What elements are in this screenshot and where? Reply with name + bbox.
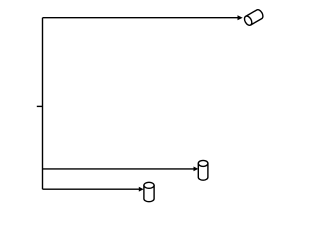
arrowhead bottom — [139, 187, 144, 192]
source stub tick — [37, 105, 43, 107]
wire to bottom cylinder — [43, 188, 140, 190]
cylinder middle — [198, 160, 208, 180]
wire to middle cylinder — [43, 168, 194, 170]
wire to top cylinder — [43, 17, 239, 19]
trunk wire — [42, 18, 44, 190]
cylinder bottom — [144, 182, 154, 201]
cylinder top (tilted) — [243, 8, 264, 26]
arrowhead middle — [194, 167, 199, 172]
arrowhead top — [238, 15, 243, 20]
